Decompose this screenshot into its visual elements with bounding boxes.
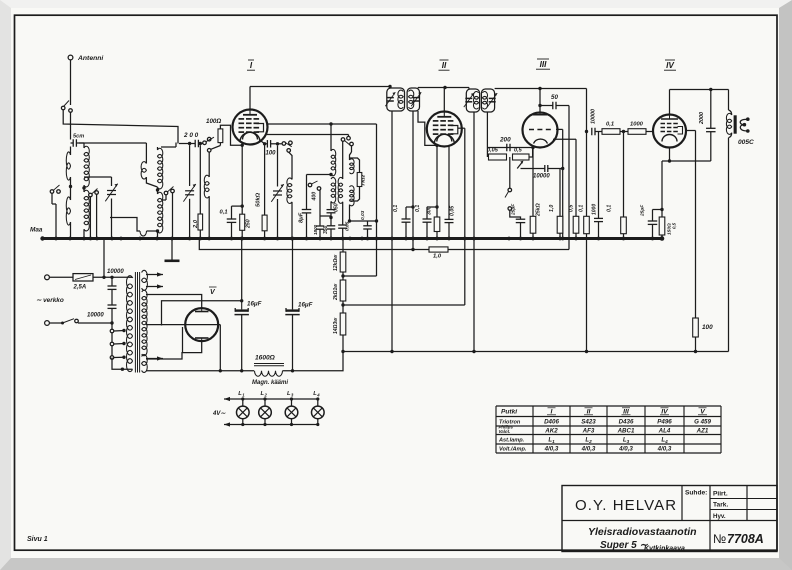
capacitor 100	[265, 140, 277, 156]
svg-text:Yleisradiovastaanotin: Yleisradiovastaanotin	[588, 526, 697, 538]
svg-text:1,0: 1,0	[549, 205, 555, 212]
wire antenna down	[70, 60, 72, 105]
capacitor 0.1 g1	[220, 204, 244, 238]
svg-text:4/0,3: 4/0,3	[581, 446, 596, 453]
capacitor 8uF	[299, 175, 332, 239]
svg-text:AL4: AL4	[658, 428, 671, 435]
roman numeral II	[439, 60, 450, 70]
resistor 0.1 screen	[579, 205, 590, 351]
switch mains	[61, 319, 114, 325]
wire IFT1 loopA down	[391, 111, 393, 351]
coil wavetrap loops	[204, 175, 209, 238]
resistor 250 cathode	[240, 142, 252, 239]
wire heater x569	[568, 106, 570, 250]
svg-text:0,1: 0,1	[607, 205, 613, 212]
svg-text:400: 400	[312, 192, 318, 202]
tuning capacitor C2	[183, 145, 195, 238]
band switch right	[162, 187, 174, 239]
IF transformer 1 loop A	[385, 88, 404, 111]
B+ line y370.8	[146, 369, 294, 372]
wire top rail x586 down	[585, 89, 588, 217]
svg-text:III: III	[540, 60, 548, 69]
resistor 50k	[256, 140, 268, 239]
wire tube II top	[443, 88, 445, 112]
capacitor 0.05 osc	[338, 221, 350, 238]
divider resistor 12k	[333, 239, 346, 281]
svg-text:0,1: 0,1	[220, 210, 228, 216]
wire field to B+	[283, 352, 344, 371]
wire coilC mid	[156, 187, 159, 194]
wire cathode x576	[553, 139, 576, 216]
capacitor 1800	[313, 216, 324, 239]
fuse 2.5A	[73, 274, 94, 291]
svg-text:D436: D436	[619, 419, 634, 426]
title Tark	[713, 502, 728, 509]
svg-text:Suhde:: Suhde:	[685, 490, 707, 497]
coil A1	[66, 152, 70, 180]
svg-text:S423: S423	[581, 419, 596, 426]
svg-text:25kΩ: 25kΩ	[536, 203, 542, 217]
svg-text:AZ1: AZ1	[696, 428, 709, 435]
svg-text:25μF: 25μF	[511, 203, 517, 216]
power transformer secondary 1	[142, 270, 148, 290]
wire coilA bottom	[70, 222, 72, 239]
title OY HELVAR	[575, 497, 677, 514]
svg-text:Valot.: Valot.	[499, 429, 511, 434]
capacitor 10000 coupling	[592, 128, 602, 136]
power transformer core	[135, 272, 139, 373]
coil B2	[84, 190, 89, 231]
svg-text:4V∼: 4V∼	[212, 411, 226, 417]
wire IFT2 loopA down	[473, 112, 475, 351]
padder 400	[308, 181, 331, 216]
svg-text:Piirt.: Piirt.	[713, 491, 728, 498]
svg-text:0,03: 0,03	[360, 210, 366, 220]
resistor 100	[693, 318, 713, 352]
svg-text:Magn. käämi: Magn. käämi	[252, 380, 288, 386]
speaker 005C	[738, 117, 754, 145]
wire antenna to 200 cap	[63, 110, 178, 144]
svg-text:16μF: 16μF	[298, 302, 313, 309]
svg-text:Putki: Putki	[501, 409, 517, 416]
svg-text:12kΩw: 12kΩw	[333, 254, 339, 271]
resistor 1000 grid	[628, 122, 653, 135]
svg-text:10000: 10000	[107, 269, 124, 275]
tube table grid	[496, 406, 721, 453]
wire coilA mid	[69, 177, 72, 200]
svg-text:0,1: 0,1	[393, 205, 399, 212]
tuning capacitor C1	[84, 177, 118, 239]
svg-text:005C: 005C	[738, 139, 754, 146]
svg-text:5cm: 5cm	[73, 134, 84, 140]
roman numeral V	[209, 287, 217, 296]
switch gram	[505, 157, 512, 210]
capacitor 25uF det	[511, 203, 526, 239]
pot wiper arrow	[517, 161, 523, 169]
title No 7708A	[713, 532, 764, 546]
resistor 0.5 out	[569, 205, 579, 239]
svg-text:0,05: 0,05	[487, 148, 499, 154]
IF transformer 2 loop A	[464, 89, 480, 112]
wire taps	[110, 323, 114, 359]
resistor 1.0 det	[549, 169, 563, 239]
wire filament riser	[182, 327, 184, 353]
svg-text:0,5: 0,5	[569, 205, 575, 212]
tube table row Triotron	[499, 419, 711, 426]
wire cathode x662	[661, 161, 663, 239]
label verkko	[36, 297, 64, 304]
svg-text:Sivu 1: Sivu 1	[27, 536, 48, 543]
svg-text:Antenni: Antenni	[77, 55, 103, 62]
osc transformer node	[329, 173, 332, 176]
svg-text:300: 300	[427, 206, 433, 215]
wire IFT2 top right rail	[495, 87, 587, 90]
capacitor 0.1 a	[393, 205, 413, 239]
coil B1	[84, 146, 89, 187]
wire filament chord	[146, 325, 220, 371]
wire bus drop x104	[103, 239, 105, 278]
power transformer secondary 3	[142, 355, 148, 373]
label Sivu 1	[27, 536, 48, 543]
resistor 300	[427, 145, 440, 239]
coil A2	[66, 197, 70, 225]
capacitor 200 ant	[195, 140, 202, 148]
feedback coil F1	[350, 146, 355, 174]
svg-text:Ast.lamp.: Ast.lamp.	[498, 438, 525, 444]
svg-text:100: 100	[702, 324, 713, 331]
lamp rail top	[224, 397, 318, 401]
title Yleisradiovastaanotin	[588, 526, 697, 538]
svg-text:Super 5 ∼: Super 5 ∼	[600, 540, 648, 551]
wire grid line y134	[266, 135, 349, 137]
svg-text:050: 050	[334, 203, 340, 212]
svg-text:G 459: G 459	[694, 419, 711, 426]
wire cathode out	[146, 341, 202, 359]
svg-text:50kΩ: 50kΩ	[256, 192, 262, 207]
B+ rail y351.5	[341, 350, 728, 353]
switch osc top	[341, 136, 353, 145]
capacitor 1000 av2	[592, 132, 604, 239]
resistor 0.1 grid	[602, 122, 628, 135]
svg-text:1000: 1000	[592, 204, 598, 215]
svg-text:14Ω3w: 14Ω3w	[333, 317, 339, 334]
wire IFT1 to tubeII	[390, 86, 469, 89]
wire HV to anode	[146, 295, 202, 309]
feedback coil F2	[350, 186, 355, 221]
label 4V	[212, 411, 226, 417]
switch antenna	[61, 101, 72, 113]
svg-text:100Ω: 100Ω	[206, 118, 221, 125]
label 200 ant	[183, 132, 199, 139]
capacitor 50	[540, 94, 569, 109]
title block box	[562, 486, 777, 552]
svg-text:2 0 0: 2 0 0	[183, 132, 199, 139]
capacitor 25uF out	[640, 204, 664, 239]
svg-text:4/0,3: 4/0,3	[657, 446, 672, 453]
label 10000 a	[107, 269, 124, 275]
capacitor 350	[323, 225, 335, 238]
capacitor 10000 av	[545, 165, 548, 172]
capacitor 16uF b	[285, 239, 312, 371]
pot 0.05	[487, 148, 523, 161]
osc coil D	[287, 152, 292, 238]
coupling coil K1	[141, 143, 157, 187]
roman numeral I	[247, 60, 255, 70]
title block dividers	[562, 486, 777, 552]
wire top link y143	[79, 142, 146, 144]
switch after 200	[198, 137, 214, 152]
wire plate line y124	[267, 122, 377, 125]
wire gram to 25uF	[510, 210, 521, 219]
heater rail y249.5	[199, 239, 569, 260]
resistor 100ohm grid	[206, 118, 244, 147]
wire tube I plate top	[249, 87, 251, 110]
capacitor 050	[327, 203, 340, 225]
band switch mid	[89, 189, 99, 239]
wire fuse to trafo	[93, 276, 129, 279]
output transformer	[726, 90, 736, 352]
wire anode2	[162, 301, 242, 326]
svg-text:0,05: 0,05	[450, 206, 456, 216]
tube II	[427, 112, 462, 147]
svg-text:AK2: AK2	[544, 428, 558, 435]
heater arrows top	[146, 272, 163, 288]
ground bus Maa	[40, 236, 664, 241]
svg-text:7708A: 7708A	[727, 532, 764, 546]
IF transformer 2 loop B	[481, 89, 497, 112]
svg-text:2000: 2000	[699, 112, 705, 125]
tap2	[341, 303, 465, 306]
lamp L2	[259, 391, 272, 426]
divider resistor 2k	[333, 280, 346, 313]
svg-text:2kΩ1w: 2kΩ1w	[333, 283, 339, 301]
svg-text:2,5A: 2,5A	[73, 285, 87, 291]
capacitor 0.1 b	[415, 205, 439, 239]
title Suhde	[685, 490, 707, 497]
wire coilA top	[70, 147, 72, 156]
osc transformer upper	[331, 124, 336, 176]
label Maa	[30, 227, 43, 234]
tube table header	[501, 408, 707, 416]
lamp L4	[312, 391, 325, 426]
wire tube IV plate top	[669, 90, 671, 115]
wire plate to 100	[686, 131, 696, 319]
svg-text:4/0,3: 4/0,3	[544, 446, 559, 453]
resistor 0.1 leak	[607, 132, 627, 239]
wire after 100	[271, 142, 282, 145]
wire coilC top to 200	[161, 143, 176, 148]
lamp rail bottom	[224, 422, 318, 426]
svg-text:O.Y. HELVAR: O.Y. HELVAR	[575, 497, 677, 514]
svg-text:D406: D406	[544, 419, 559, 426]
wire screen feed x376	[376, 124, 378, 276]
tube table row Ast.lamp.	[498, 437, 668, 444]
capacitor 200 det	[507, 144, 510, 152]
svg-text:0,5: 0,5	[672, 222, 677, 229]
capacitor 10000 a	[108, 277, 117, 289]
roman numeral IV	[664, 60, 676, 70]
pot 0.5	[513, 148, 533, 161]
resistor 25k	[530, 148, 541, 239]
svg-text:0,05: 0,05	[345, 221, 351, 231]
tube I	[233, 110, 268, 145]
title Piirt	[713, 491, 728, 498]
switch osc grid	[282, 141, 292, 152]
svg-text:ABC1: ABC1	[617, 428, 635, 435]
power transformer secondary 2	[142, 290, 147, 355]
tube table row Volt./Amp.	[499, 446, 672, 453]
wire IFT2 loopB grid	[486, 112, 488, 148]
tube III	[523, 113, 558, 148]
svg-text:50: 50	[551, 94, 558, 101]
lamp L1	[237, 391, 250, 426]
wire trafo primary ends	[112, 277, 133, 371]
power transformer primary	[126, 276, 132, 372]
capacitor 2000	[699, 90, 716, 162]
svg-text:II: II	[442, 61, 447, 70]
svg-text:250: 250	[246, 219, 252, 229]
coil wavetrap	[209, 146, 220, 178]
resistor 7k	[350, 158, 367, 201]
svg-text:Tark.: Tark.	[713, 502, 728, 509]
svg-text:0,1: 0,1	[579, 205, 585, 212]
label 10000 coupling	[591, 109, 597, 124]
wire coilC bottom	[157, 231, 159, 238]
svg-text:10000: 10000	[87, 313, 104, 319]
plate rail D	[670, 88, 729, 91]
svg-text:∼ verkko: ∼ verkko	[36, 297, 64, 304]
svg-text:1600Ω: 1600Ω	[255, 355, 276, 362]
svg-text:Volt./Amp.: Volt./Amp.	[499, 447, 527, 453]
label 200 det	[499, 137, 511, 144]
tube IV	[653, 115, 686, 148]
wire grid chord x562	[556, 129, 564, 238]
wire cathode y161	[662, 148, 711, 163]
title Kytkinkaava	[644, 546, 685, 553]
resistor 2.0	[193, 145, 203, 238]
band switch left	[50, 185, 60, 239]
wire grid 200 line	[487, 146, 534, 149]
wire coilB mid	[82, 185, 85, 192]
roman numeral III	[536, 59, 550, 69]
wire coilB bottom	[83, 229, 85, 238]
svg-text:Maa: Maa	[30, 227, 43, 234]
wire tube II grid wrap	[418, 111, 439, 147]
heater arrows bottom	[146, 356, 163, 360]
wire wiper 10000	[521, 169, 551, 180]
svg-text:100: 100	[266, 151, 277, 157]
tap1	[341, 274, 376, 277]
tube V	[185, 308, 218, 341]
IF transformer 1 loop B	[407, 88, 421, 111]
wire IFT1 loopB down	[411, 111, 414, 251]
node 200 line	[179, 142, 195, 145]
svg-text:0,1: 0,1	[415, 205, 421, 212]
svg-text:16μF: 16μF	[247, 301, 262, 308]
wire antenna coil	[70, 112, 72, 139]
chassis ground symbol	[165, 239, 180, 261]
capacitor 0.05 k2	[445, 146, 456, 239]
wire y221	[348, 219, 378, 222]
coil C1	[158, 147, 163, 189]
divider resistor 14ohm	[333, 313, 346, 352]
svg-text:1000: 1000	[630, 122, 644, 128]
svg-text:1,0: 1,0	[433, 254, 442, 260]
coil C2	[158, 192, 163, 233]
wire screen x464	[458, 128, 465, 305]
svg-text:P496: P496	[657, 419, 672, 426]
svg-text:№: №	[713, 532, 726, 546]
wire 10000 to x562	[548, 168, 563, 170]
svg-text:10000: 10000	[591, 109, 597, 124]
svg-text:4/0,3: 4/0,3	[618, 446, 633, 453]
svg-text:8μF: 8μF	[299, 212, 305, 223]
wire link bottom	[110, 218, 159, 237]
capacitor 5cm	[71, 134, 85, 147]
field coil 1600	[252, 355, 288, 387]
plate rail A	[250, 85, 392, 88]
capacitor 0.03	[360, 210, 372, 238]
mains terminal 1	[45, 275, 73, 280]
title Super 5	[600, 540, 648, 551]
svg-text:200: 200	[499, 137, 511, 144]
svg-text:25μF: 25μF	[640, 204, 646, 217]
wire tube III top	[538, 89, 541, 113]
antenna terminal	[68, 55, 103, 62]
svg-text:10000: 10000	[533, 174, 550, 180]
resistor 150ohm	[659, 217, 676, 239]
svg-text:Hyv.: Hyv.	[713, 513, 726, 520]
tuning capacitor C3 osc	[271, 146, 283, 239]
bus junction dots	[54, 237, 654, 241]
svg-text:Kytkinkaava: Kytkinkaava	[644, 546, 685, 553]
link coil E	[338, 141, 343, 225]
svg-text:0,1: 0,1	[606, 122, 614, 128]
lamp L3	[285, 391, 298, 426]
capacitor 16uF a	[235, 239, 262, 371]
tube table row Philips	[499, 425, 709, 435]
osc transformer lower	[331, 177, 336, 209]
svg-text:0,5: 0,5	[514, 148, 523, 154]
label 10000 b	[87, 313, 104, 319]
mains terminal 2	[45, 321, 62, 326]
title Hyv	[713, 513, 726, 520]
svg-text:AF3: AF3	[582, 428, 595, 435]
capacitor 10000 b	[108, 289, 117, 323]
wire coilB top	[83, 143, 85, 148]
